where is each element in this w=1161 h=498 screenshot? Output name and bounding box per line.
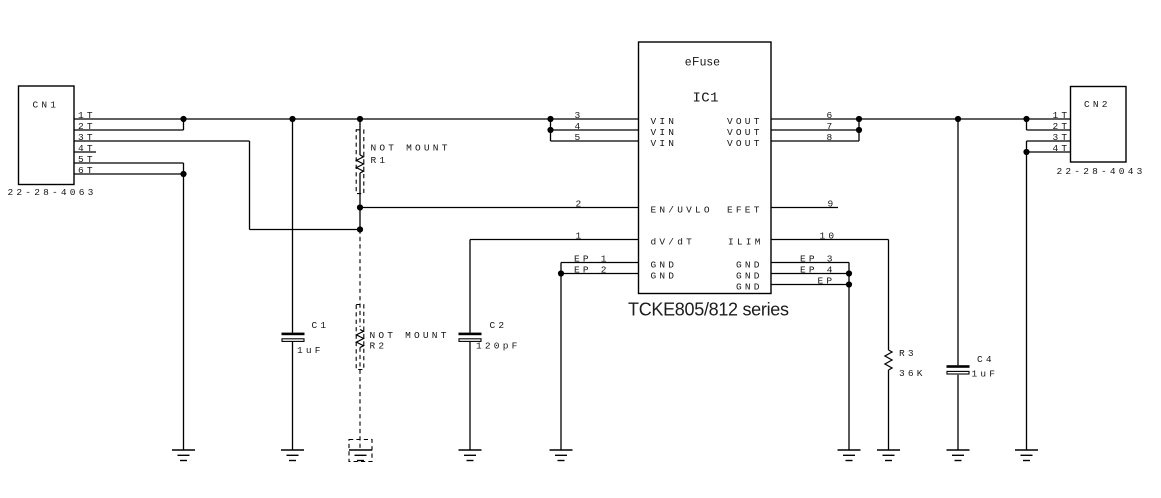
svg-text:eFuse: eFuse [685,57,720,69]
wire EP_3/EP_4/EP down to ground at x=849 [848,263,850,450]
resistor R1 not-mount dashed box [356,130,364,194]
wire CN2 pin 3T, y=141 [1027,140,1071,142]
svg-text:EN/UVLO: EN/UVLO [651,205,713,216]
capacitor C2 plates [459,333,482,342]
svg-text:GND: GND [651,260,678,271]
svg-text:NOT MOUNT: NOT MOUNT [370,330,450,341]
junction dot CN2 4T ground [1023,149,1029,155]
wire C1 branch from VIN rail down to C1 top [292,119,294,333]
svg-text:EP_3: EP_3 [800,253,836,264]
svg-text:EP_2: EP_2 [574,264,610,275]
svg-text:3T: 3T [1053,132,1071,143]
wire VOUT riser joining pins 6/7/8 at x=859 [858,119,860,141]
resistor R1 bottom lead to EN/UVLO net [359,173,361,230]
resistor R2 not-mount dashed box [356,305,364,370]
wire C1 bottom to ground [292,342,294,450]
wire IC VIN pin5, y=141 [551,140,639,142]
wire CN1 pin 5T, y=163 [74,162,184,164]
svg-text:9: 9 [828,198,837,209]
wire CN2 pin 4T, y=152 [1027,151,1071,153]
svg-text:VOUT: VOUT [727,138,763,149]
wire IC EFET pin9 stub, y=207.5 [771,207,838,209]
svg-text:1uF: 1uF [972,369,999,380]
junction dot EP_4 drop [846,270,852,276]
svg-text:2T: 2T [78,121,96,132]
ground GND7 (EP pins) [838,450,861,461]
svg-text:VIN: VIN [651,116,678,127]
svg-text:R1: R1 [371,155,389,166]
svg-text:1T: 1T [1053,110,1071,121]
svg-text:GND: GND [651,271,678,282]
ground GND8 (C4) [947,450,970,461]
junction dot VOUT pin7 riser [856,127,862,133]
junction dot EP drop [846,281,852,287]
svg-text:10: 10 [820,230,838,241]
svg-text:R3: R3 [899,348,917,359]
wire CN1 pin 1T to IC VIN pin3, net VIN, y=119 [74,118,639,120]
resistor R3 top lead [888,240,890,351]
svg-text:1: 1 [576,230,585,241]
connector CN1 body [19,86,75,185]
svg-text:TCKE805/812 series: TCKE805/812 series [628,300,789,320]
junction dot C4 on VOUT rail [955,116,961,122]
wire IC VIN pin4, y=130 [551,129,639,131]
wire 5T/6T down to ground at x=183.5 [183,163,185,450]
junction dot VOUT pin6 riser [856,116,862,122]
junction dot 3T/R2 node [357,226,363,232]
svg-text:1T: 1T [78,110,96,121]
wire C2 bottom to ground [469,342,471,450]
resistor R3 zigzag body [885,350,892,370]
svg-text:6: 6 [827,110,836,121]
svg-text:C4: C4 [977,354,995,365]
svg-text:GND: GND [736,271,763,282]
svg-text:2T: 2T [1053,121,1071,132]
svg-text:5T: 5T [78,154,96,165]
svg-text:2: 2 [576,198,585,209]
svg-text:4T: 4T [78,143,96,154]
svg-text:22-28-4043: 22-28-4043 [1057,166,1146,177]
svg-text:VOUT: VOUT [727,116,763,127]
svg-text:C2: C2 [490,320,508,331]
ground GND1 (CN1 5T/6T) [172,450,195,461]
resistor R1 top lead from VIN rail [359,119,361,155]
svg-text:EFET: EFET [727,205,763,216]
wire IC VOUT pin7, y=130 [771,129,859,131]
ground GND2 (C1) [281,450,304,461]
wire CN2 3T/4T down to ground at x=1026.5 [1026,141,1028,450]
svg-text:120pF: 120pF [476,341,521,352]
junction dot 1T/2T [180,116,186,122]
resistor R2 zigzag body (NOT MOUNT) [356,330,363,348]
junction dot VIN pin4 riser [547,127,553,133]
resistor R3 bottom lead to ground [888,370,890,450]
svg-text:3T: 3T [78,132,96,143]
svg-text:4T: 4T [1053,143,1071,154]
svg-text:dV/dT: dV/dT [651,237,696,248]
wire VIN riser joining pins 3/4/5 at x=550.5 [550,119,552,141]
svg-text:VOUT: VOUT [727,127,763,138]
wire EN/UVLO net to IC pin2, y=207.5 [360,207,639,209]
wire CN1 pin 3T, y=141 [74,140,250,142]
svg-text:NOT MOUNT: NOT MOUNT [371,143,451,154]
wire EP_1/EP_2 down to ground at x=561 [560,263,562,450]
svg-text:EP_1: EP_1 [574,253,610,264]
wire IC VOUT pin8, y=141 [771,140,859,142]
svg-text:4: 4 [575,121,584,132]
junction dot EP_2 drop [558,270,564,276]
wire (dashed) EN/UVLO node down to resistor R2 [359,230,361,328]
ground GND4 (C2) [459,450,482,461]
wire C2 top lead [469,240,471,333]
capacitor C1 plates [282,333,305,342]
resistor R1 zigzag body (NOT MOUNT) [356,155,363,173]
wire 2T riser to 1T at x=183.5 [183,119,185,130]
svg-text:C1: C1 [312,320,330,331]
svg-text:5: 5 [575,132,584,143]
wire CN2 pin 2T, y=130 [1027,129,1071,131]
svg-text:EP: EP [818,275,836,286]
wire 3T run to EN/UVLO node, y=229.5 [250,229,361,231]
svg-text:1uF: 1uF [297,345,324,356]
wire IC EP_1 GND pin, y=262.5 [561,262,639,264]
capacitor C4 plates [947,365,970,374]
svg-text:3: 3 [575,110,584,121]
wire IC ILIM pin10 to R3, y=239.5 [771,239,889,241]
ground GND6 (R3) [877,450,900,461]
wire CN2 2T riser to VOUT rail at x=1026.5 [1026,119,1028,130]
wire IC EP_4 GND pin, y=273.5 [771,273,849,275]
svg-text:IC1: IC1 [693,91,719,107]
junction dot R1/EN-UVLO [357,204,363,210]
wire 3T drop at x=249.5 [249,141,251,230]
svg-text:GND: GND [736,260,763,271]
svg-text:7: 7 [827,121,836,132]
wire CN1 pin 6T, y=174 [74,173,184,175]
svg-text:GND: GND [736,282,763,293]
IC U1 body [639,42,772,294]
svg-text:CN2: CN2 [1084,99,1111,110]
junction dot 6T ground [180,171,186,177]
svg-text:ILIM: ILIM [728,237,764,248]
junction dot R1 on VIN rail [357,116,363,122]
wire CN1 pin 4T stub [74,151,96,153]
svg-text:VIN: VIN [651,127,678,138]
svg-text:R2: R2 [370,341,388,352]
ground GND3 (R2, not mounted) [349,450,372,461]
junction dot VIN pin3 riser [547,116,553,122]
wire C4 bottom to ground [957,375,959,450]
svg-text:8: 8 [827,132,836,143]
wire CN1 pin 2T, y=130 [74,129,184,131]
svg-text:22-28-4063: 22-28-4063 [8,187,97,198]
svg-text:6T: 6T [78,165,96,176]
wire (dashed) R2 bottom down to not-mount ground [359,348,361,451]
wire IC EP_2 GND pin, y=273.5 [561,273,639,275]
wire IC EP_3 GND pin, y=262.5 [771,262,849,264]
not-mount dashed box around ground GND3 [349,440,372,462]
svg-text:CN1: CN1 [33,100,60,111]
wire VOUT net IC pin6 to CN2, y=119 [771,118,1071,120]
svg-text:VIN: VIN [651,138,678,149]
ground GND5 (EP_1/EP_2) [550,450,573,461]
svg-text:36K: 36K [899,368,926,379]
wire IC EP GND pin, y=284.5 [771,284,849,286]
junction dot CN2 1T/2T [1023,116,1029,122]
svg-text:EP_4: EP_4 [800,264,836,275]
junction dot C1 on VIN rail [289,116,295,122]
wire dV/dT net from C2 to IC pin1, y=239.5 [470,239,639,241]
connector CN2 body [1071,87,1127,163]
ground GND9 (CN2 3T/4T) [1015,450,1038,461]
wire C4 branch from VOUT rail down to C4 top [957,119,959,365]
